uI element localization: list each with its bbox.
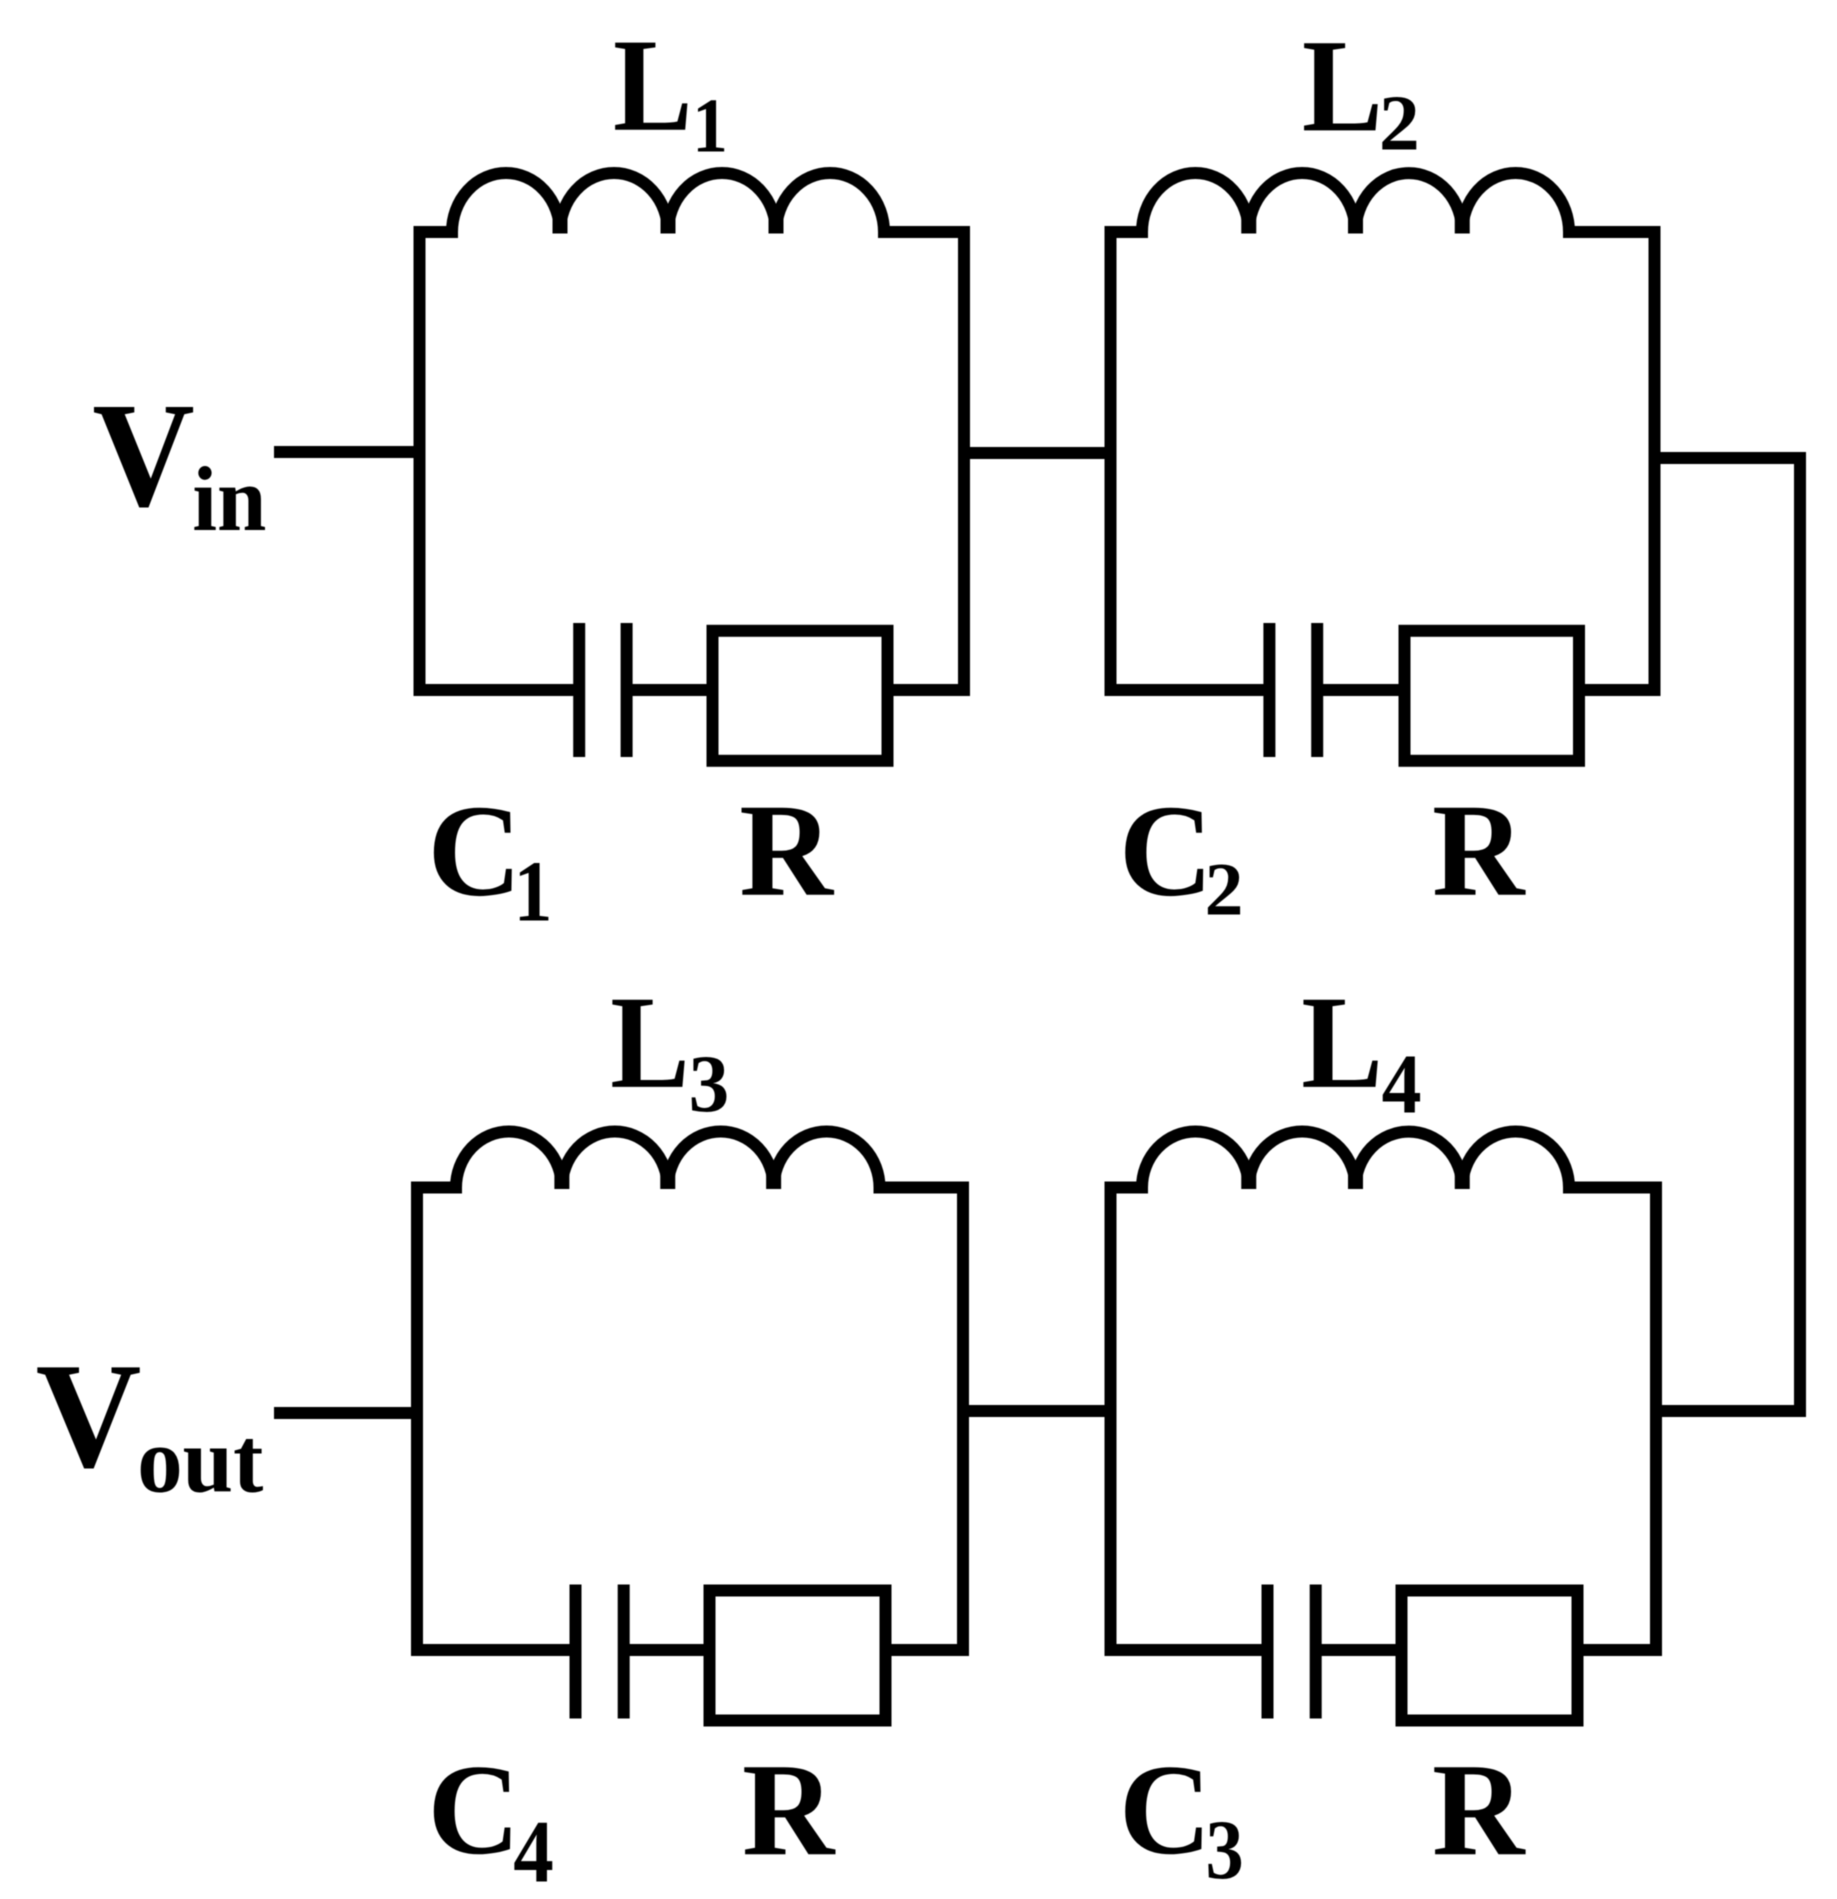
capacitor C3: [1268, 1585, 1316, 1719]
label L1: [613, 11, 728, 169]
resistor R (block 1): [713, 631, 888, 761]
label C1: [428, 779, 553, 940]
wire: Vin input lead: [274, 446, 426, 458]
capacitor C4: [576, 1585, 624, 1719]
label L2: [1302, 11, 1420, 167]
svg-text:C: C: [428, 1739, 520, 1882]
inductor L2 (with block 2 left/right wires): [1111, 173, 1655, 690]
resistor R (block 3): [710, 1591, 886, 1721]
svg-text:out: out: [137, 1409, 263, 1512]
svg-text:4: 4: [513, 1804, 554, 1899]
svg-text:L: L: [613, 11, 692, 159]
wire: block 2 bottom-left segment: [1105, 684, 1271, 696]
svg-text:V: V: [36, 1331, 142, 1499]
wire: R to block 4 right: [1577, 1644, 1662, 1656]
wire: block 4 bottom-left segment: [1105, 1644, 1269, 1656]
svg-text:3: 3: [1206, 1803, 1244, 1897]
label L3: [610, 968, 729, 1129]
wire: R to block 2 right: [1579, 684, 1661, 696]
svg-text:3: 3: [689, 1038, 730, 1129]
capacitor C1: [579, 623, 626, 757]
svg-text:C: C: [1119, 1739, 1212, 1882]
svg-text:R: R: [742, 1735, 836, 1883]
inductor L1 (with block 1 left/right wires): [420, 173, 965, 690]
label C2: [1119, 779, 1244, 932]
svg-text:R: R: [1432, 1735, 1526, 1883]
resistor R (block 4): [1402, 1591, 1578, 1721]
wire: block 2 to far-right riser (top link): [1649, 452, 1807, 464]
wire: R to block 3 right: [885, 1644, 969, 1656]
svg-text:2: 2: [1379, 81, 1420, 168]
node Vin: [92, 372, 266, 550]
wire: junction between block 1 and block 2: [958, 447, 1117, 459]
svg-text:R: R: [739, 776, 835, 924]
wire: C1 to R (block 1): [626, 684, 713, 696]
wire: block 3 bottom-left segment: [411, 1644, 576, 1656]
svg-text:in: in: [192, 448, 266, 550]
svg-text:2: 2: [1205, 849, 1244, 932]
svg-text:L: L: [610, 968, 689, 1116]
svg-text:1: 1: [692, 83, 728, 169]
node Vout: [36, 1331, 264, 1512]
label L4: [1301, 968, 1421, 1131]
wire: far-right riser to block 4 (bottom link): [1650, 1405, 1806, 1417]
resistor R (block 2): [1405, 631, 1580, 761]
label C3: [1119, 1739, 1244, 1897]
svg-text:V: V: [92, 372, 194, 538]
svg-text:R: R: [1432, 776, 1526, 924]
wire: far-right vertical riser: [1794, 458, 1806, 1411]
label C4: [428, 1739, 554, 1899]
capacitor C2: [1269, 623, 1317, 757]
wire: block 1 bottom-left segment: [414, 684, 581, 696]
wire: junction between block 3 and block 4: [957, 1405, 1117, 1417]
svg-text:C: C: [1119, 779, 1213, 924]
wire: Vout output lead: [274, 1407, 423, 1419]
wire: C2 to R (block 2): [1317, 684, 1405, 696]
wire: C4 to R (block 3): [623, 1644, 710, 1656]
svg-text:L: L: [1302, 11, 1383, 159]
svg-text:L: L: [1301, 968, 1383, 1116]
inductor L3 (with block 3 left/right wires): [417, 1132, 963, 1650]
wire: R to block 1 right: [888, 684, 970, 696]
svg-text:C: C: [428, 779, 522, 924]
svg-text:4: 4: [1382, 1037, 1422, 1131]
wire: C3 to R (block 4): [1315, 1644, 1402, 1656]
svg-text:1: 1: [514, 844, 553, 940]
inductor L4 (with block 4 left/right wires): [1111, 1132, 1657, 1650]
